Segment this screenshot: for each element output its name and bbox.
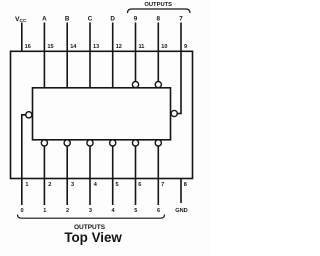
wire VCC pin16 xyxy=(21,23,23,52)
inverter bubble output2 xyxy=(64,140,70,146)
svg-text:2: 2 xyxy=(48,182,51,188)
svg-text:16: 16 xyxy=(25,44,31,50)
svg-text:7: 7 xyxy=(179,16,183,23)
svg-text:GND: GND xyxy=(175,208,187,214)
svg-text:11: 11 xyxy=(139,44,145,50)
package outline xyxy=(11,51,193,178)
svg-text:4: 4 xyxy=(94,182,98,188)
wire output9 pin11 xyxy=(135,23,137,82)
inverter bubble output4 xyxy=(110,140,116,146)
wire B pin14 xyxy=(66,23,68,88)
wire output5 pin6 xyxy=(135,146,137,205)
wire output6 pin7 xyxy=(157,146,159,205)
svg-text:9: 9 xyxy=(134,16,138,23)
IC body U1 xyxy=(33,88,171,140)
wire output2 pin3 xyxy=(66,146,68,205)
svg-text:8: 8 xyxy=(184,182,187,188)
svg-text:8: 8 xyxy=(157,16,161,23)
wire output0 pin1 xyxy=(22,115,26,205)
inverter bubble output6 xyxy=(155,140,161,146)
wire output7 pin9 xyxy=(177,23,181,114)
svg-text:15: 15 xyxy=(47,44,53,50)
svg-text:3: 3 xyxy=(89,208,92,214)
inverter bubble left output0 xyxy=(26,112,32,118)
svg-text:12: 12 xyxy=(116,44,122,50)
bracket top outputs xyxy=(128,9,191,13)
svg-text:9: 9 xyxy=(184,44,187,50)
inverter bubble right output7 xyxy=(171,110,177,116)
svg-text:7: 7 xyxy=(161,182,164,188)
svg-text:A: A xyxy=(42,16,47,23)
svg-text:2: 2 xyxy=(66,208,69,214)
wire A pin15 xyxy=(43,23,45,88)
inverter bubble top output9 xyxy=(132,82,138,88)
svg-text:OUTPUTS: OUTPUTS xyxy=(144,2,172,8)
svg-text:13: 13 xyxy=(93,44,99,50)
wire output4 pin5 xyxy=(112,146,114,205)
inverter bubble top output8 xyxy=(155,82,161,88)
svg-text:6: 6 xyxy=(157,208,160,214)
svg-text:6: 6 xyxy=(138,182,141,188)
svg-text:5: 5 xyxy=(134,208,137,214)
svg-text:1: 1 xyxy=(25,182,28,188)
svg-text:1: 1 xyxy=(43,208,46,214)
svg-text:B: B xyxy=(65,16,70,23)
svg-text:C: C xyxy=(88,16,93,23)
wire output3 pin4 xyxy=(89,146,91,205)
svg-text:0: 0 xyxy=(20,208,23,214)
wire D pin12 xyxy=(112,23,114,88)
bracket bottom outputs xyxy=(18,215,165,219)
inverter bubble output3 xyxy=(87,140,93,146)
wire output1 pin2 xyxy=(43,146,45,205)
inverter bubble output5 xyxy=(132,140,138,146)
svg-text:Top View: Top View xyxy=(64,230,122,245)
wire output8 pin10 xyxy=(157,23,159,82)
svg-text:10: 10 xyxy=(161,44,167,50)
inverter bubble output1 xyxy=(41,140,47,146)
svg-text:4: 4 xyxy=(111,208,115,214)
svg-text:D: D xyxy=(110,16,115,23)
wire C pin13 xyxy=(89,23,91,88)
svg-text:14: 14 xyxy=(70,44,77,50)
svg-text:5: 5 xyxy=(116,182,119,188)
wire GND pin8 xyxy=(180,179,182,204)
svg-text:3: 3 xyxy=(71,182,74,188)
